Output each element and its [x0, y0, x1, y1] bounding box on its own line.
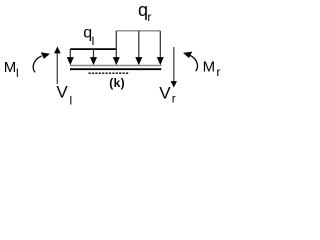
svg-text:M: M — [4, 59, 17, 76]
svg-text:l: l — [92, 34, 95, 48]
svg-text:V: V — [56, 82, 68, 101]
svg-text:r: r — [172, 92, 176, 106]
svg-text:r: r — [147, 10, 151, 24]
svg-text:(k): (k) — [109, 76, 125, 90]
svg-text:M: M — [203, 59, 216, 76]
svg-text:l: l — [70, 93, 73, 107]
svg-text:V: V — [159, 83, 171, 102]
svg-text:l: l — [16, 66, 19, 80]
svg-text:r: r — [216, 65, 220, 79]
